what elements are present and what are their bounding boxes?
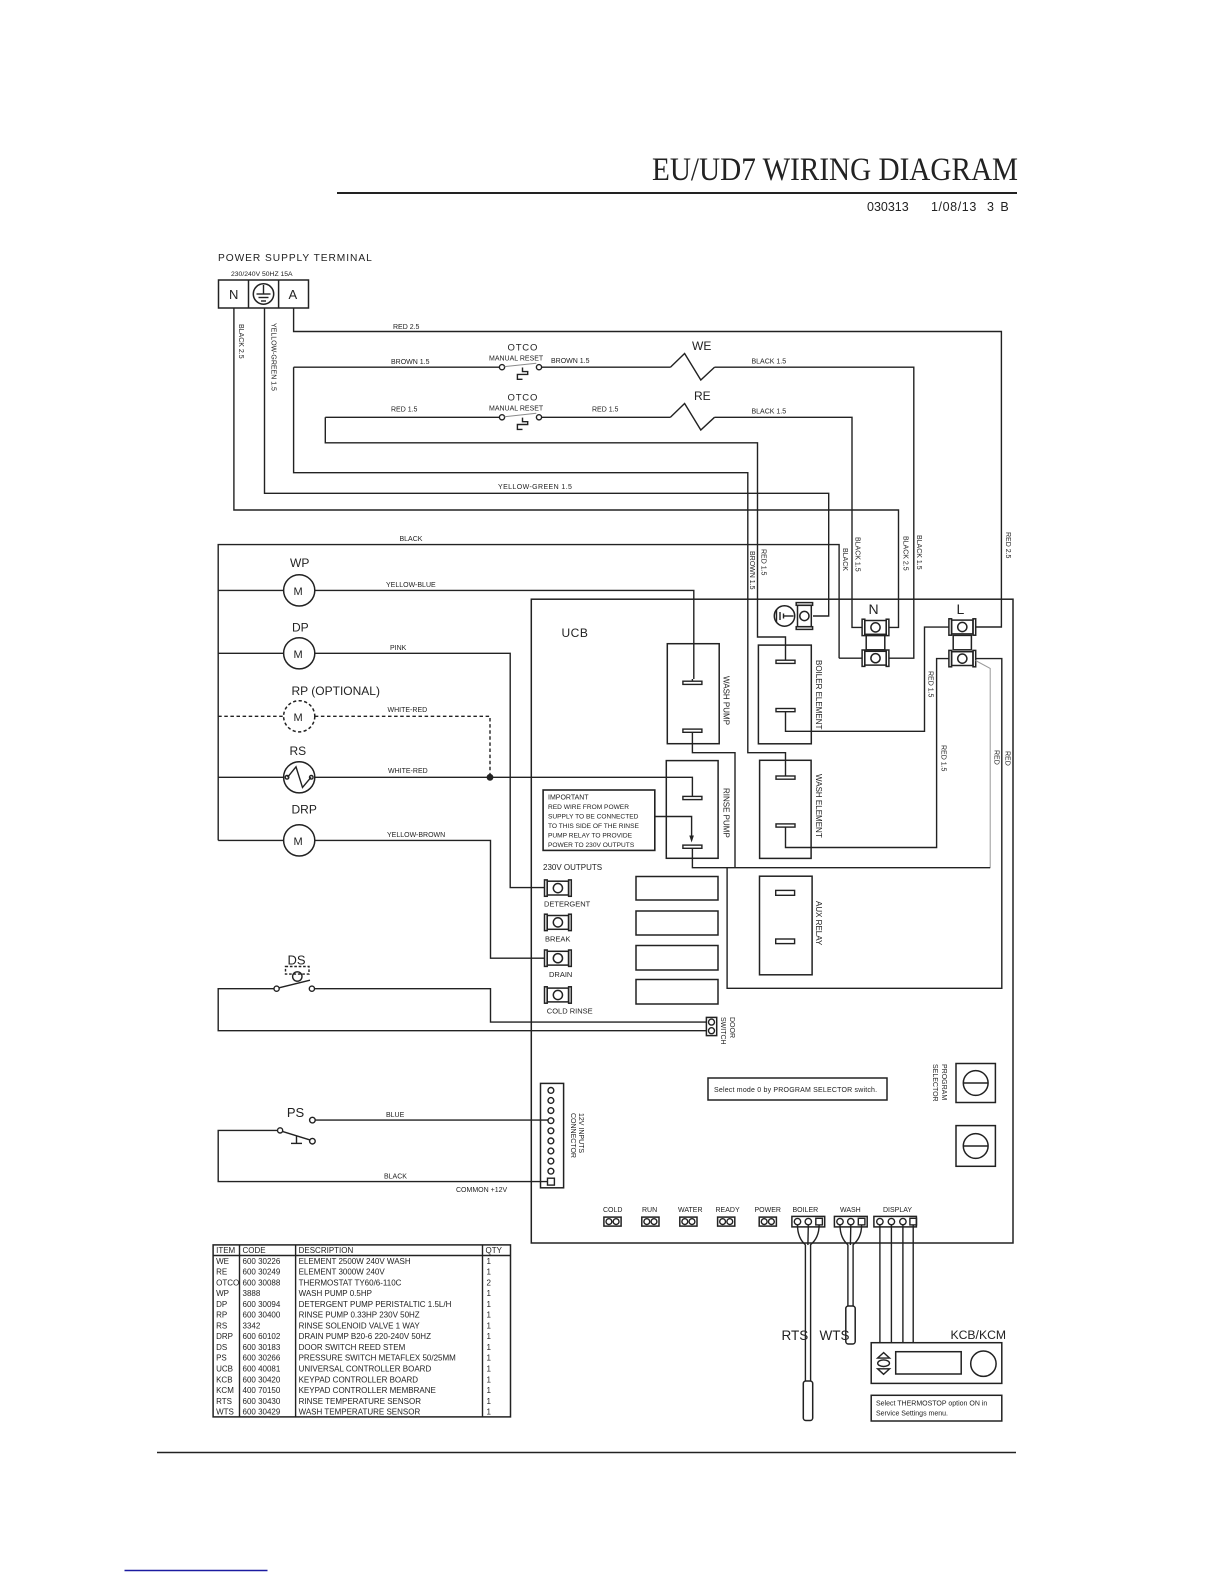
svg-text:AUX RELAY: AUX RELAY [814,901,823,946]
svg-text:WHITE-RED: WHITE-RED [388,707,428,714]
relay RINSE PUMP [666,761,718,859]
svg-text:RED 1.5: RED 1.5 [940,745,947,772]
svg-text:BLACK 2.5: BLACK 2.5 [902,536,909,571]
door switch terminal block [706,1017,716,1035]
svg-text:1: 1 [487,1332,492,1341]
svg-text:DETERGENT PUMP PERISTALTIC 1.5: DETERGENT PUMP PERISTALTIC 1.5L/H [299,1300,452,1309]
svg-text:BLACK 1.5: BLACK 1.5 [854,537,861,572]
svg-text:1: 1 [487,1257,492,1266]
display wires to KCB [879,1225,881,1343]
svg-text:DRAIN: DRAIN [549,970,572,979]
svg-text:BLACK: BLACK [841,548,848,571]
svg-text:PS: PS [216,1354,227,1363]
svg-text:WE: WE [692,339,711,353]
svg-text:UNIVERSAL CONTROLLER BOARD: UNIVERSAL CONTROLLER BOARD [299,1365,432,1374]
wash pump motor WP [218,556,315,606]
svg-text:BLACK: BLACK [400,536,423,543]
svg-text:RINSE SOLENOID VALVE 1 WAY: RINSE SOLENOID VALVE 1 WAY [299,1322,421,1331]
svg-text:600 30094: 600 30094 [243,1300,281,1309]
svg-text:UCB: UCB [216,1365,233,1374]
svg-text:600 30226: 600 30226 [243,1257,281,1266]
svg-text:1: 1 [487,1375,492,1384]
door switch DS reed [274,953,315,992]
wire BLACK 2.5 from N: down and right to N terminal upper right [234,308,899,627]
svg-text:DP: DP [216,1300,227,1309]
svg-text:CODE: CODE [243,1246,266,1255]
svg-text:BLACK 1.5: BLACK 1.5 [915,535,922,570]
footer blue link line [125,1570,268,1572]
terminal L upper [949,619,976,635]
svg-text:THERMOSTAT TY60/6-110C: THERMOSTAT TY60/6-110C [299,1278,402,1287]
heating element RE zigzag [670,404,714,431]
wire RED 1.5 to OTCO2 [325,416,499,418]
svg-text:KEYPAD CONTROLLER BOARD: KEYPAD CONTROLLER BOARD [299,1375,419,1384]
svg-text:DISPLAY: DISPLAY [883,1207,912,1214]
svg-text:12V INPUTS: 12V INPUTS [577,1113,584,1153]
svg-text:DESCRIPTION: DESCRIPTION [299,1246,354,1255]
svg-text:1: 1 [487,1386,492,1395]
svg-text:WHITE-RED: WHITE-RED [388,768,428,775]
svg-text:OTCO: OTCO [216,1278,239,1287]
svg-text:3 B: 3 B [987,200,1010,214]
svg-text:Service Settings menu.: Service Settings menu. [876,1411,948,1418]
svg-text:3888: 3888 [243,1289,261,1298]
svg-text:RED 2.5: RED 2.5 [1004,532,1011,559]
svg-text:RINSE PUMP 0.33HP 230V 50HZ: RINSE PUMP 0.33HP 230V 50HZ [299,1311,420,1320]
svg-text:DP: DP [292,621,309,635]
pressure switch PS [278,1105,316,1144]
svg-text:BROWN 1.5: BROWN 1.5 [748,551,755,590]
earth symbol at UCB top [774,606,794,626]
svg-text:600 30420: 600 30420 [243,1375,281,1384]
svg-text:WP: WP [290,556,309,570]
svg-text:600 30266: 600 30266 [243,1354,281,1363]
svg-text:WATER: WATER [678,1207,703,1214]
drain pump motor DRP [218,803,317,857]
wire BROWN 1.5 return: down and right to wash element [294,367,786,774]
svg-text:RED: RED [993,750,1000,765]
svg-text:SUPPLY TO BE CONNECTED: SUPPLY TO BE CONNECTED [548,814,639,821]
program selector switch 1 [956,1064,995,1103]
wire RED 1.5 wash element to L lower left [786,659,949,848]
svg-text:WASH PUMP 0.5HP: WASH PUMP 0.5HP [299,1289,372,1298]
svg-text:SELECTOR: SELECTOR [931,1064,938,1102]
power supply terminal block [219,280,309,308]
terminal N lower [862,650,889,666]
svg-text:POWER SUPPLY TERMINAL: POWER SUPPLY TERMINAL [218,253,373,264]
svg-text:KEYPAD CONTROLLER MEMBRANE: KEYPAD CONTROLLER MEMBRANE [299,1386,436,1395]
UCB universal controller board box [531,599,1013,1243]
svg-text:RP (OPTIONAL): RP (OPTIONAL) [292,684,380,698]
svg-text:BREAK: BREAK [545,935,570,944]
wire BLACK 1.5 from RE: right and down to N terminal upper left [715,417,863,627]
wire DS right to door switch upper [315,989,707,1022]
program selector switch 2 [956,1126,995,1167]
svg-text:DS: DS [288,953,306,968]
wire BLACK motor common rail: top and left rail down to DRP [839,657,862,659]
svg-text:N: N [229,287,238,302]
terminal L lower [949,650,976,666]
svg-text:RP: RP [216,1311,227,1320]
svg-text:OTCO: OTCO [508,343,539,354]
svg-text:DRP: DRP [292,803,317,817]
svg-text:MANUAL RESET: MANUAL RESET [489,356,544,363]
relay WASH PUMP [667,644,719,744]
svg-text:1: 1 [487,1365,492,1374]
svg-text:RED WIRE FROM POWER: RED WIRE FROM POWER [548,804,629,811]
svg-text:KCM: KCM [216,1386,234,1395]
svg-text:600 30249: 600 30249 [243,1268,281,1277]
IMPORTANT note box [543,790,655,850]
svg-text:UCB: UCB [562,626,589,640]
svg-text:SWITCH: SWITCH [719,1017,726,1045]
svg-text:3342: 3342 [243,1322,261,1331]
svg-text:ELEMENT 2500W 240V WASH: ELEMENT 2500W 240V WASH [299,1257,411,1266]
svg-text:RS: RS [216,1322,227,1331]
title rule [337,192,1017,194]
thermostop note box [871,1395,1002,1421]
svg-text:BLACK 1.5: BLACK 1.5 [752,359,787,366]
svg-text:400 70150: 400 70150 [243,1386,281,1395]
svg-text:L: L [957,601,965,617]
svg-text:BROWN 1.5: BROWN 1.5 [391,359,430,366]
wire RED thin from L lower to bus (grey) [976,661,991,868]
output terminal DRAIN [545,950,572,966]
svg-text:WTS: WTS [216,1408,234,1417]
output block rect 1 [636,877,718,901]
svg-text:1: 1 [487,1268,492,1277]
svg-text:600 30088: 600 30088 [243,1278,281,1287]
svg-text:M: M [294,586,303,598]
svg-text:BOILER ELEMENT: BOILER ELEMENT [814,660,823,729]
svg-text:BOILER: BOILER [793,1207,819,1214]
wire YELLOW-GREEN 1.5 from earth: down and right to UCB ground terminal [265,308,829,616]
output terminal COLD RINSE [545,987,572,1003]
output block rect 2 [636,911,718,935]
parts table [213,1245,510,1417]
svg-text:WASH ELEMENT: WASH ELEMENT [814,774,823,838]
svg-text:RED 1.5: RED 1.5 [760,549,767,576]
rinse pump motor RP (OPTIONAL) dashed [218,684,380,732]
output block rect 4 [636,980,718,1005]
svg-text:CONNECTOR: CONNECTOR [569,1113,576,1158]
svg-text:ITEM: ITEM [216,1246,235,1255]
relay BOILER ELEMENT [758,645,811,744]
keypad controller board KCB [871,1343,1002,1384]
svg-text:M: M [294,712,303,724]
svg-text:600 30400: 600 30400 [243,1311,281,1320]
svg-text:COMMON +12V: COMMON +12V [456,1187,507,1194]
svg-text:DOOR: DOOR [728,1017,735,1038]
svg-text:COLD RINSE: COLD RINSE [547,1007,593,1016]
svg-text:KCB: KCB [216,1375,232,1384]
thermal cutout OTCO2 [489,393,544,430]
terminal N upper [862,619,889,635]
wire BLUE from PS to 12V connector [315,1119,548,1121]
svg-text:M: M [294,649,303,661]
detergent pump motor DP [218,621,315,669]
heating element WE zigzag [670,354,714,381]
svg-text:RED 1.5: RED 1.5 [592,407,619,414]
wire RED 1.5 boiler element to L upper left [786,627,949,731]
svg-text:WASH TEMPERATURE SENSOR: WASH TEMPERATURE SENSOR [299,1408,421,1417]
svg-text:DRAIN PUMP B20-6 220-240V 50HZ: DRAIN PUMP B20-6 220-240V 50HZ [299,1332,431,1341]
svg-text:230/240V 50HZ 15A: 230/240V 50HZ 15A [231,271,293,278]
svg-text:600 30183: 600 30183 [243,1343,281,1352]
wire YELLOW-BROWN from DRP down to DRAIN output [315,840,544,958]
svg-text:RS: RS [290,744,307,758]
svg-text:1: 1 [487,1354,492,1363]
svg-text:RE: RE [216,1268,227,1277]
output terminal DETERGENT [545,880,572,896]
svg-text:TO THIS SIDE OF THE RINSE: TO THIS SIDE OF THE RINSE [548,823,639,830]
svg-text:WASH PUMP: WASH PUMP [722,676,731,725]
wire BLACK 1.5 from WE: right and down to N terminal lower right [715,367,914,658]
svg-text:POWER TO 230V OUTPUTS: POWER TO 230V OUTPUTS [548,842,635,849]
svg-text:Select mode 0 by PROGRAM SELEC: Select mode 0 by PROGRAM SELECTOR switch… [714,1087,877,1094]
svg-text:POWER: POWER [755,1207,781,1214]
svg-text:600 30430: 600 30430 [243,1397,281,1406]
wire BLACK from PS to 12V connector common [218,1130,547,1181]
svg-text:OTCO: OTCO [508,393,539,404]
svg-text:EU/UD7 WIRING DIAGRAM: EU/UD7 WIRING DIAGRAM [652,152,1018,188]
output block rect 3 [636,946,718,971]
12V inputs connector [541,1083,564,1187]
wire wash pump relay lower to bus [692,733,735,868]
svg-text:MANUAL RESET: MANUAL RESET [489,406,544,413]
svg-text:600 30429: 600 30429 [243,1408,281,1417]
svg-text:YELLOW-BLUE: YELLOW-BLUE [386,582,436,589]
select mode note box [708,1078,887,1100]
wire DS left to door switch lower [218,989,706,1031]
svg-text:RINSE TEMPERATURE SENSOR: RINSE TEMPERATURE SENSOR [299,1397,422,1406]
junction node on WHITE-RED wire [487,774,494,781]
svg-text:QTY: QTY [486,1246,503,1255]
note pointer line with arrow to rinse pump relay [655,817,692,838]
RTS sensor cable from BOILER connector [798,1225,820,1421]
wire PINK from DP down to DETERGENT output [315,653,544,887]
wire BROWN 1.5 OTCO1 to WE [542,366,671,368]
svg-text:BLUE: BLUE [386,1112,405,1119]
footer rule [157,1452,1016,1454]
svg-text:RTS: RTS [782,1328,809,1343]
svg-text:1/08/13: 1/08/13 [931,200,977,214]
svg-text:RTS: RTS [216,1397,232,1406]
wire bus rinse pump relay output [692,849,990,868]
svg-text:YELLOW-GREEN 1.5: YELLOW-GREEN 1.5 [498,484,572,491]
relay AUX RELAY [760,876,813,975]
rinse solenoid valve RS [218,744,315,793]
svg-text:1: 1 [487,1343,492,1352]
svg-text:PINK: PINK [390,645,407,652]
relay WASH ELEMENT [760,760,812,858]
svg-text:DRP: DRP [216,1332,233,1341]
svg-text:DOOR SWITCH REED STEM: DOOR SWITCH REED STEM [299,1343,406,1352]
svg-text:WASH: WASH [840,1207,861,1214]
WTS sensor cable from WASH connector [840,1225,862,1344]
svg-text:Select THERMOSTOP option ON in: Select THERMOSTOP option ON in [876,1401,987,1408]
svg-text:030313: 030313 [867,200,909,214]
svg-text:600 40081: 600 40081 [243,1365,281,1374]
svg-text:RED 1.5: RED 1.5 [927,671,934,698]
svg-text:BLACK: BLACK [384,1174,407,1181]
svg-text:READY: READY [716,1207,740,1214]
svg-text:N: N [869,601,879,617]
svg-text:PRESSURE SWITCH METAFLEX 50/25: PRESSURE SWITCH METAFLEX 50/25MM [299,1354,457,1363]
svg-text:YELLOW-BROWN: YELLOW-BROWN [387,832,445,839]
svg-text:RE: RE [694,389,711,403]
wire WHITE-RED from RS to rinse pump relay [315,777,693,794]
svg-text:230V OUTPUTS: 230V OUTPUTS [543,863,602,872]
svg-text:RINSE PUMP: RINSE PUMP [722,788,731,838]
svg-text:RUN: RUN [642,1207,657,1214]
svg-text:M: M [294,836,303,848]
output terminal BREAK [545,914,572,930]
svg-text:COLD: COLD [603,1207,622,1214]
svg-text:RED 1.5: RED 1.5 [391,407,418,414]
thermal cutout OTCO1 [489,343,544,380]
svg-text:2: 2 [487,1278,492,1287]
wire RED 1.5 OTCO2 to RE [542,416,671,418]
wire BROWN 1.5 to OTCO1 [294,366,500,368]
svg-text:WE: WE [216,1257,229,1266]
svg-text:RED 2.5: RED 2.5 [393,324,420,331]
L terminal connector body [953,635,971,649]
svg-text:DETERGENT: DETERGENT [544,900,591,909]
wire RED from L lower right: down, left to junction column [727,659,1002,989]
svg-text:ELEMENT 3000W 240V: ELEMENT 3000W 240V [299,1268,386,1277]
earth symbol in terminal [253,284,273,304]
N terminal connector body [866,636,885,650]
svg-text:WTS: WTS [820,1328,850,1343]
svg-text:YELLOW-GREEN 1.5: YELLOW-GREEN 1.5 [270,323,277,391]
svg-text:PUMP RELAY TO PROVIDE: PUMP RELAY TO PROVIDE [548,833,633,840]
wire RED 2.5 from A: down, right, down to L terminal upper right [294,308,1002,627]
svg-text:1: 1 [487,1300,492,1309]
svg-text:KCB/KCM: KCB/KCM [951,1328,1007,1342]
svg-text:BROWN 1.5: BROWN 1.5 [551,358,590,365]
svg-text:1: 1 [487,1289,492,1298]
wire WHITE-RED dashed from RP to junction [315,716,490,777]
svg-text:600 60102: 600 60102 [243,1332,281,1341]
svg-text:1: 1 [487,1322,492,1331]
wire YELLOW-BLUE from WP to wash pump relay [315,590,694,679]
svg-text:1: 1 [487,1311,492,1320]
svg-text:RED: RED [1004,751,1011,766]
svg-text:PROGRAM: PROGRAM [940,1064,947,1100]
svg-text:1: 1 [487,1397,492,1406]
wire RED 1.5 return: down and right to boiler element [325,417,785,658]
svg-text:IMPORTANT: IMPORTANT [548,795,589,802]
earth terminal block at UCB top [796,603,812,630]
svg-text:PS: PS [287,1105,305,1120]
svg-text:1: 1 [487,1408,492,1417]
svg-text:BLACK 2.5: BLACK 2.5 [237,324,244,359]
svg-text:A: A [289,287,298,302]
svg-text:WP: WP [216,1289,229,1298]
svg-text:BLACK 1.5: BLACK 1.5 [752,409,787,416]
svg-text:DS: DS [216,1343,227,1352]
